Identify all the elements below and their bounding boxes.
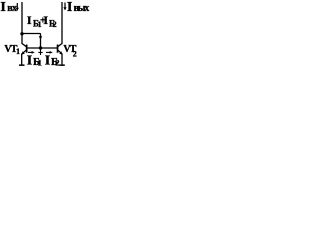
svg-text:2: 2 <box>73 50 77 59</box>
svg-text:2: 2 <box>55 58 59 68</box>
svg-text:I: I <box>27 13 32 27</box>
svg-text:2: 2 <box>53 20 57 29</box>
svg-text:вх: вх <box>7 3 17 14</box>
svg-text:I: I <box>43 13 48 27</box>
svg-text:I: I <box>45 54 50 69</box>
svg-text:I: I <box>0 0 5 15</box>
svg-text:1: 1 <box>38 58 42 68</box>
svg-text:1: 1 <box>16 47 20 56</box>
svg-text:I: I <box>27 54 32 69</box>
svg-text:I: I <box>67 0 72 15</box>
svg-text:вых: вых <box>74 3 90 14</box>
